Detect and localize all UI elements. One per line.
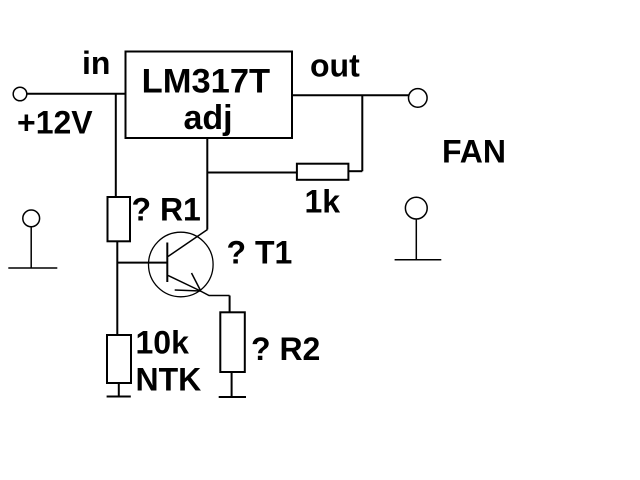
input terminal circle	[13, 87, 27, 101]
svg-text:? T1: ? T1	[227, 235, 293, 271]
svg-text:LM317T: LM317T	[142, 63, 270, 101]
left antenna terminal circle	[23, 210, 40, 227]
transistor T1 base bar	[166, 243, 168, 283]
transistor T1 emitter line	[168, 275, 230, 295]
wire out down to R3 1k	[361, 95, 363, 171]
resistor R3 1k	[297, 164, 349, 180]
R2 bottom terminal bar	[219, 396, 246, 398]
svg-text:10k: 10k	[136, 325, 190, 361]
left antenna base bar	[8, 267, 57, 269]
svg-text:out: out	[310, 48, 360, 84]
transistor T1 emitter arrow barb lower	[175, 290, 201, 291]
wire NTK bottom stub	[118, 383, 120, 396]
wire adj to R3 1k	[207, 172, 297, 174]
regulator U1 LM317T box	[126, 52, 293, 139]
output terminal circle	[409, 89, 428, 108]
transistor T1 collector line	[168, 230, 208, 257]
svg-text:adj: adj	[183, 99, 232, 137]
wire in node down to R1	[115, 94, 117, 197]
svg-text:1k: 1k	[305, 184, 341, 220]
wire R2 bottom stub	[231, 372, 233, 397]
NTK bottom terminal bar	[107, 396, 131, 398]
svg-text:NTK: NTK	[136, 362, 202, 398]
wire LM317 out to output terminal	[292, 94, 409, 96]
wire base to T1	[117, 262, 167, 264]
svg-text:+12V: +12V	[17, 105, 93, 141]
left antenna stem	[30, 227, 32, 268]
right antenna terminal circle	[405, 197, 427, 219]
thermistor NTK box	[107, 335, 131, 383]
transistor T1 emitter arrow barb upper	[192, 273, 201, 291]
wire R1 bottom to NTK	[116, 241, 118, 335]
wire input to LM317	[27, 93, 126, 95]
wire adj pin down	[206, 138, 208, 230]
wire R3 right stub	[348, 170, 362, 172]
svg-text:? R2: ? R2	[251, 331, 320, 367]
svg-text:? R1: ? R1	[132, 191, 201, 227]
svg-text:in: in	[82, 45, 110, 81]
wire emitter down to R2	[229, 296, 231, 313]
transistor T1 circle	[149, 232, 214, 297]
resistor R2	[220, 312, 245, 372]
right antenna stem	[415, 219, 417, 260]
resistor R1	[108, 197, 131, 241]
svg-text:FAN: FAN	[442, 134, 506, 170]
right antenna base bar	[395, 259, 442, 261]
